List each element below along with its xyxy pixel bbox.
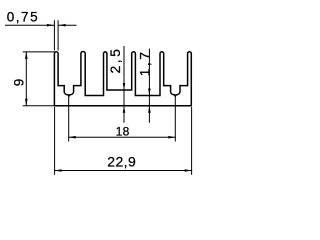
dim 0,75: extension lines above fin1 (54, 21, 58, 50)
dim 0,75: dimension line right part (59, 24, 76, 26)
svg-text:22,9: 22,9 (107, 153, 136, 169)
dim 22,9: left extension line (54, 108, 56, 175)
heatsink profile outline (54, 51, 191, 105)
dim 1,7: dimension line vertical (148, 49, 150, 122)
arrow 1,7 down (tip at slot floor) (148, 89, 151, 96)
dim 9: bottom extension line (23, 105, 56, 107)
dim 9: dimension line (25, 52, 27, 106)
svg-text:2,5: 2,5 (107, 47, 123, 74)
arrow 9 bottom (points down) (25, 99, 28, 106)
svg-text:18: 18 (116, 124, 130, 138)
dim 22,9: dimension line (55, 170, 192, 172)
dim 9: top extension line (23, 51, 56, 53)
arrow 0,75 left (points right at fin left wall) (47, 24, 54, 27)
dim 18: right extension line (174, 97, 176, 141)
arrow 22,9 right (points right) (185, 169, 192, 172)
arrow 2,5 down (tip at slot floor) (123, 83, 126, 90)
dim 18: dimension line (69, 136, 176, 138)
arrow 22,9 left (points left) (55, 169, 62, 172)
arrow 18 left (points left) (69, 136, 76, 139)
arrow 9 top (points up) (25, 52, 28, 59)
dim 0,75: dimension line left part (6, 24, 54, 26)
svg-text:0,75: 0,75 (7, 9, 39, 24)
arrow 0,75 right (points left at fin right wall) (59, 24, 66, 27)
arrow 2,5 up (tip at base bottom, from below) (123, 106, 126, 113)
dim 22,9: right extension line (191, 108, 193, 175)
svg-text:1,7: 1,7 (136, 49, 152, 76)
arrow 18 right (points right) (168, 136, 175, 139)
arrow 1,7 up (tip at base bottom, from below) (148, 106, 151, 113)
dim 2,5: dimension line vertical (123, 47, 125, 123)
svg-text:9: 9 (12, 78, 27, 86)
dim 18: left extension line (68, 97, 70, 142)
